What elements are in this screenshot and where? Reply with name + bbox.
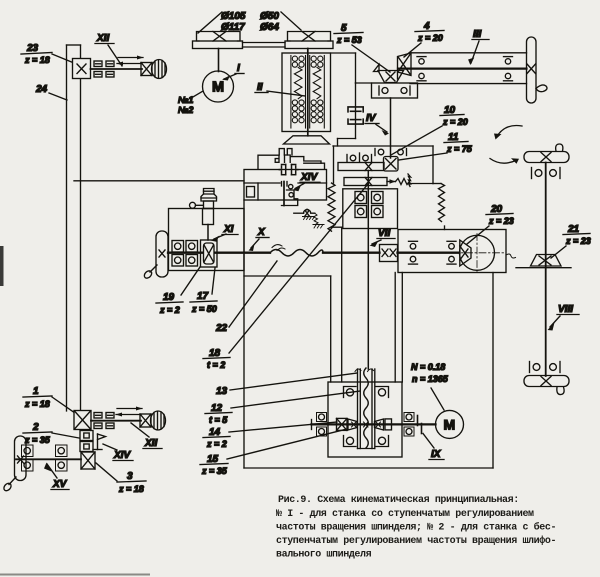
pulley bottom of shaft VIII <box>524 376 569 395</box>
svg-text:M: M <box>444 417 456 433</box>
svg-text:N = 0.18: N = 0.18 <box>411 362 445 372</box>
bearings on shaft XV <box>22 445 68 471</box>
bearing glyphs flanking gear 10 <box>375 149 407 156</box>
label XIV (top) <box>293 172 320 191</box>
label 4 z=20 <box>404 21 444 57</box>
label 14 z=2 <box>203 422 337 449</box>
bearing box under bevel 5 <box>372 83 418 98</box>
label XV <box>44 463 69 491</box>
label X <box>249 227 270 251</box>
svg-text:Ø50: Ø50 <box>260 11 279 22</box>
shaft VIII vertical <box>545 163 547 377</box>
label 5 z=53 <box>334 23 390 72</box>
svg-text:M: M <box>212 80 224 96</box>
label 15 z=35 <box>200 429 347 476</box>
frame line left horizontal <box>74 180 244 182</box>
svg-text:IX: IX <box>431 449 442 460</box>
label XIV (bottom) <box>103 444 133 461</box>
bearing glyphs above gear 11 <box>347 153 372 162</box>
svg-text:t = 5: t = 5 <box>209 415 228 425</box>
frame: left bay wall <box>244 200 342 468</box>
svg-text:XV: XV <box>52 479 68 490</box>
gear 3 box <box>81 452 95 469</box>
label 20 z=23 <box>467 204 514 244</box>
label 21 z=23 <box>551 224 591 258</box>
label 10 z=20 <box>391 105 468 155</box>
shaft IX horizontal <box>312 423 436 425</box>
gearbox XIV housing <box>244 170 327 201</box>
label 12 t=5 <box>205 391 360 425</box>
clutch VII box with bevels <box>380 245 398 262</box>
motor M1 <box>203 71 234 102</box>
svg-text:t = 2: t = 2 <box>207 360 225 370</box>
svg-text:z = 35: z = 35 <box>24 435 51 445</box>
bearing glyphs above bottom pulley <box>530 362 561 373</box>
svg-text:XI: XI <box>223 224 234 235</box>
spindle head housing <box>328 382 402 457</box>
gear 1 box <box>74 411 91 430</box>
small spring to anchor <box>313 213 324 228</box>
svg-text:z = 35: z = 35 <box>201 466 228 476</box>
label 1 z=18 <box>23 386 75 413</box>
svg-text:z = 53: z = 53 <box>336 35 362 45</box>
camshaft housing stepped top <box>258 149 325 170</box>
label IV <box>365 113 389 136</box>
svg-text:z = 2: z = 2 <box>206 439 227 449</box>
frame: bottom and right <box>244 273 493 469</box>
svg-text:z = 20: z = 20 <box>417 33 443 43</box>
svg-text:I: I <box>237 63 240 74</box>
svg-text:19: 19 <box>163 292 175 303</box>
svg-text:XII: XII <box>96 33 109 44</box>
svg-text:n = 1365: n = 1365 <box>412 374 449 384</box>
svg-text:VIII: VIII <box>558 304 573 315</box>
svg-text:XIV: XIV <box>113 450 131 461</box>
spindle bearing brackets <box>344 387 389 447</box>
svg-text:XIV: XIV <box>300 172 318 183</box>
svg-text:вального шпинделя: вального шпинделя <box>276 550 372 561</box>
svg-text:z = 23: z = 23 <box>565 236 591 246</box>
shaft IX left end bearings <box>312 413 327 437</box>
shaft XII (bottom) <box>91 420 141 422</box>
handle knob on shaft XII bottom <box>140 411 166 430</box>
shaft IV vertical <box>390 98 392 158</box>
shaft XV horizontal <box>16 458 81 460</box>
label 19 z=2 <box>156 267 200 315</box>
svg-text:Рис.9. Схема кинематическая пр: Рис.9. Схема кинематическая принципиальн… <box>278 495 519 506</box>
label 13 <box>216 373 357 397</box>
gear 11 bar (z=75) <box>338 163 384 171</box>
svg-text:2: 2 <box>32 422 39 433</box>
svg-text:3: 3 <box>127 471 133 482</box>
elastic spindle wavy line <box>355 368 374 448</box>
bevel gear 5 (z=53) on shaft IV <box>374 65 404 83</box>
svg-text:24: 24 <box>35 84 48 95</box>
clutch blocks on shaft XII top <box>94 61 114 77</box>
bevel pinion on shaft X end <box>460 240 471 266</box>
bearing pair on shaft III right <box>504 57 513 81</box>
pulley on shaft III right end <box>527 37 548 103</box>
shaft III rails <box>398 53 527 84</box>
svg-text:z = 2: z = 2 <box>159 305 180 315</box>
labels N1 N2 <box>178 91 203 115</box>
selector flag XIV <box>93 434 106 450</box>
spindle sleeve <box>358 369 375 449</box>
svg-text:z = 23: z = 23 <box>488 216 514 226</box>
label XII (bottom) <box>131 423 162 449</box>
svg-text:II: II <box>257 82 263 93</box>
bevel gear 4 (z=20) on shaft III <box>398 53 412 79</box>
variator foot cone <box>284 136 330 144</box>
label 22 <box>215 261 277 334</box>
svg-text:XII: XII <box>144 438 157 449</box>
svg-text:22: 22 <box>215 323 228 334</box>
gear 21 bevel <box>516 255 571 268</box>
main spring (XIV box to frame) <box>328 183 342 231</box>
worm XI on vertical <box>201 240 218 267</box>
svg-text:z = 18: z = 18 <box>24 399 50 409</box>
svg-text:№2: №2 <box>178 105 193 115</box>
variator II right spring-disc column <box>310 56 325 129</box>
svg-text:Ø105: Ø105 <box>221 11 246 22</box>
shaft IX right bearings <box>404 413 414 437</box>
labels D50 D64 <box>260 11 301 33</box>
double arrow marks <box>117 56 144 66</box>
gear 23 box <box>73 59 91 79</box>
cone clutch symbol <box>279 165 298 175</box>
label 17 z=50 <box>190 268 217 314</box>
svg-text:z = 18: z = 18 <box>118 484 144 494</box>
labels D105 D117 <box>198 11 246 33</box>
label II <box>255 82 305 96</box>
frame line above gear 10 <box>333 83 433 184</box>
double arrows XII bottom <box>116 407 143 417</box>
worm gear pair on spindle <box>337 418 392 430</box>
label 23 z=18 <box>21 43 74 65</box>
svg-text:VII: VII <box>378 228 390 239</box>
label VII <box>370 228 396 247</box>
gear 20 disc <box>452 234 505 273</box>
label IX <box>423 434 444 461</box>
frame line from belt to bevel box <box>331 53 372 83</box>
svg-text:23: 23 <box>26 43 39 54</box>
shaft VII vertical screw <box>367 171 369 370</box>
plunger handle XI <box>190 189 217 241</box>
label 3 z=18 <box>96 463 146 494</box>
rocker lever with pivot <box>294 209 315 219</box>
shaft XII (top) <box>91 68 143 70</box>
label VIII <box>548 304 580 331</box>
variator II left spring-disc column <box>291 56 306 129</box>
svg-text:z = 18: z = 18 <box>24 55 50 65</box>
flexible wavy section of shaft X <box>270 245 323 256</box>
label 11 z=75 <box>399 132 473 160</box>
scan edge artifact bottom <box>0 574 150 576</box>
svg-text:X: X <box>257 227 266 238</box>
svg-text:5: 5 <box>341 23 347 34</box>
gearbox XI housing <box>169 209 245 271</box>
detent bracket with rollers <box>282 182 298 206</box>
label XI <box>211 224 239 242</box>
svg-text:IV: IV <box>366 113 377 124</box>
svg-text:ступенчатым регулированием час: ступенчатым регулированием частоты враще… <box>276 534 556 547</box>
bearing blocks in XI box <box>172 241 198 267</box>
svg-text:z = 50: z = 50 <box>191 304 217 314</box>
label 24 <box>35 84 67 100</box>
svg-text:№ I - для станка со ступенчаты: № I - для станка со ступенчатым регулиро… <box>276 509 534 520</box>
bearing pair on shaft X right 1 <box>409 241 418 264</box>
svg-text:z = 75: z = 75 <box>446 144 473 154</box>
mesh mark to gear 21 <box>506 254 516 258</box>
shaft 24 vertical bar <box>67 45 81 411</box>
bearing glyphs below top pulley <box>532 168 561 179</box>
belt I-II <box>243 43 286 48</box>
label 2 z=35 <box>23 422 79 445</box>
svg-text:частоты вращения шпинделя; № 2: частоты вращения шпинделя; № 2 - для ста… <box>276 521 556 534</box>
svg-text:13: 13 <box>216 386 228 397</box>
label N=0.18 n=1365 <box>411 362 449 410</box>
handle knob on shaft XII top <box>141 60 167 79</box>
svg-text:z = 20: z = 20 <box>442 117 468 127</box>
shaft X horizontal <box>168 252 460 254</box>
bearing pair on shaft X right 2 <box>447 241 456 264</box>
svg-text:17: 17 <box>197 291 209 302</box>
gear 2 block stack <box>80 431 93 452</box>
rotation arrow arcs <box>490 125 522 163</box>
bearing pair on shaft III left <box>417 57 426 81</box>
label I <box>222 63 244 81</box>
label III <box>468 29 489 65</box>
pulley on motor I (left) <box>193 32 243 49</box>
variator II housing <box>282 49 331 136</box>
friction clutch on vertical frame shaft <box>348 107 363 124</box>
scan edge artifact left <box>0 246 4 286</box>
motor M2 <box>436 410 464 438</box>
clutch blocks on shaft XII bottom <box>94 413 114 429</box>
gearbox 20 housing <box>398 230 506 273</box>
svg-text:1: 1 <box>33 386 39 397</box>
coupling IX <box>415 416 425 434</box>
spring right of screw to gearbox 20 <box>433 184 445 230</box>
lead screw bar with X <box>344 174 433 187</box>
label 18 t=2 <box>203 184 368 370</box>
caption <box>276 495 556 561</box>
motor M1 shaft <box>218 49 220 72</box>
handwheel on shaft X <box>143 231 168 280</box>
svg-text:№1: №1 <box>178 95 193 105</box>
svg-text:Ø64: Ø64 <box>260 22 279 33</box>
handwheel XV <box>2 436 26 492</box>
pulley on variator shaft (right) <box>285 32 333 49</box>
bearing box on shaft VII <box>343 189 398 229</box>
svg-text:III: III <box>473 29 482 40</box>
pulley top of shaft VIII <box>524 144 569 163</box>
label XII (top) <box>95 33 122 66</box>
gear 10 box (z=20) <box>384 157 399 172</box>
